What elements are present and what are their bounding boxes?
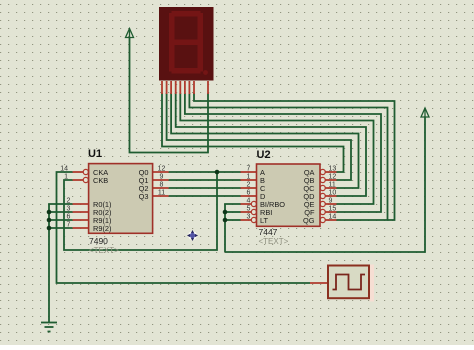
svg-text:LT: LT <box>260 216 269 225</box>
svg-text:9: 9 <box>160 174 164 181</box>
svg-text:QG: QG <box>303 216 315 225</box>
svg-text:2: 2 <box>67 198 71 205</box>
svg-text:15: 15 <box>329 206 337 213</box>
svg-text:7447: 7447 <box>259 227 278 237</box>
svg-text:14: 14 <box>60 166 68 173</box>
svg-text:1: 1 <box>247 174 251 181</box>
svg-text:1: 1 <box>64 174 68 181</box>
svg-text:9: 9 <box>329 198 333 205</box>
svg-text:U1: U1 <box>88 148 102 160</box>
svg-text:Q3: Q3 <box>139 192 149 201</box>
svg-text:2: 2 <box>247 182 251 189</box>
svg-text:6: 6 <box>67 214 71 221</box>
svg-text:10: 10 <box>329 190 337 197</box>
svg-text:12: 12 <box>158 166 166 173</box>
svg-text:7: 7 <box>247 166 251 173</box>
svg-text:CKB: CKB <box>93 176 108 185</box>
svg-text:4: 4 <box>247 198 251 205</box>
svg-text:11: 11 <box>329 182 336 189</box>
svg-text:3: 3 <box>67 206 71 213</box>
svg-text:<TEXT>: <TEXT> <box>259 237 289 246</box>
svg-text:R9(2): R9(2) <box>93 224 111 233</box>
svg-text:12: 12 <box>329 174 337 181</box>
svg-text:5: 5 <box>247 206 251 213</box>
svg-text:7: 7 <box>67 222 71 229</box>
svg-text:13: 13 <box>329 166 337 173</box>
svg-text:14: 14 <box>329 214 337 221</box>
svg-text:6: 6 <box>247 190 251 197</box>
svg-text:<TEXT>: <TEXT> <box>89 246 119 255</box>
svg-text:11: 11 <box>158 190 165 197</box>
svg-text:3: 3 <box>247 214 251 221</box>
svg-text:U2: U2 <box>257 149 271 161</box>
svg-text:8: 8 <box>160 182 164 189</box>
svg-text:7490: 7490 <box>89 236 108 246</box>
